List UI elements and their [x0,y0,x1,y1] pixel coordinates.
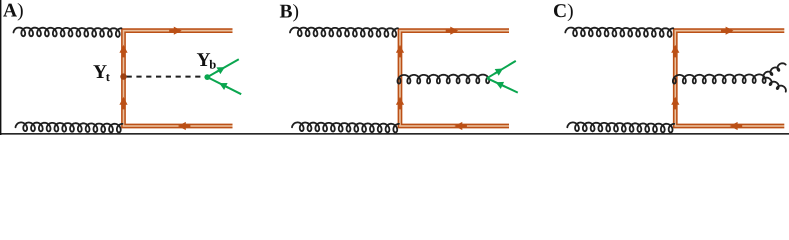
fermion line: outgoing anti-quark (green, lower) [207,77,241,94]
diagram B: quark loop lines and incoming gluons [290,27,509,133]
gluon: upper branch of gluon splitting [763,63,785,77]
diagram C: quark loop lines and incoming gluons [565,27,784,133]
gluon: emitted middle gluon (panel B) [398,75,490,84]
arrow: green upper line, pointing away from vertex [215,67,224,74]
scalar line: dashed Higgs propagator [127,76,204,78]
svg-text:C): C) [553,1,574,22]
fermion line: outgoing anti-quark (green, lower) [487,78,518,92]
gluon: lower branch of gluon splitting [764,78,786,92]
gluon: emitted middle gluon (panel C) [673,74,766,83]
arrow: green upper line, pointing away from vertex [494,69,503,76]
svg-text:b: b [209,57,216,71]
figure border: bottom horizontal black line [0,133,789,135]
vertex: Yb coupling (green dot) [204,74,210,80]
vertex: Yt coupling (dot on vertical quark line) [120,73,126,79]
arrow: green lower line, pointing toward vertex [219,83,229,90]
figure border: left edge vertical black line [0,0,1,135]
arrow: green lower line, pointing toward vertex [496,82,506,89]
diagram A: quark loop lines and incoming gluons [14,27,233,133]
svg-text:B): B) [280,1,300,22]
fermion line: outgoing quark (green, upper) [207,59,239,77]
fermion line: outgoing quark (green, upper) [487,61,516,78]
svg-text:A): A) [3,0,24,21]
